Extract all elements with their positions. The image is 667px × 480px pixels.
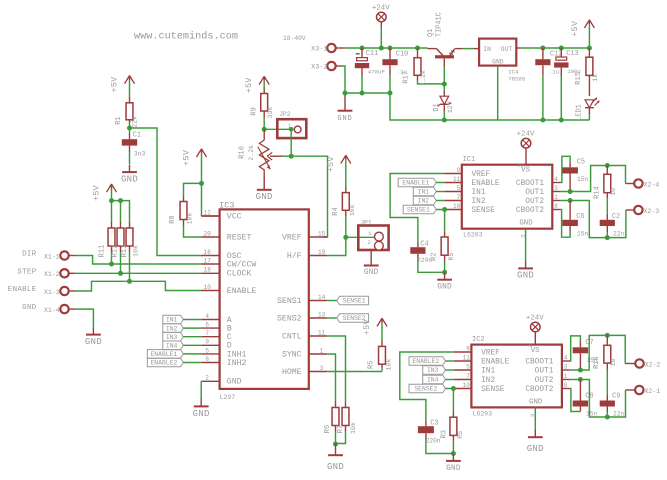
svg-text:X2-4: X2-4 bbox=[644, 181, 660, 188]
resistor R9 39k bbox=[250, 89, 274, 130]
ground R10 bbox=[256, 173, 273, 202]
svg-text:GND: GND bbox=[227, 378, 242, 387]
connector X1-2 bbox=[44, 269, 69, 278]
junction C7-OUT1 IC2 bbox=[578, 368, 583, 373]
svg-text:78S05: 78S05 bbox=[508, 75, 526, 82]
node ENABLE2 flag bbox=[147, 358, 201, 367]
svg-text:18: 18 bbox=[204, 267, 212, 274]
svg-text:CBOOT2: CBOOT2 bbox=[516, 207, 544, 215]
capacitor C9 22n snubber bbox=[600, 392, 625, 417]
svg-text:IN2: IN2 bbox=[166, 325, 178, 332]
wire DIR to CW/CCW bbox=[69, 256, 202, 265]
svg-text:+24V: +24V bbox=[526, 314, 544, 322]
junction rail-C10 bbox=[388, 46, 393, 51]
supply +5V above R4 bbox=[326, 155, 351, 187]
svg-text:20: 20 bbox=[204, 230, 212, 237]
wire OUT2 IC2 to X2-1 bbox=[570, 380, 634, 418]
label DIR bbox=[22, 251, 37, 259]
resistor R6 10k bbox=[324, 402, 339, 445]
junction C4-R2 ground bbox=[442, 270, 447, 275]
svg-text:X1-4: X1-4 bbox=[44, 307, 60, 314]
svg-text:X2-1: X2-1 bbox=[645, 388, 661, 395]
svg-text:SENS1: SENS1 bbox=[277, 297, 302, 306]
svg-text:+5V: +5V bbox=[362, 319, 372, 335]
wire ground bus upper bbox=[345, 92, 390, 94]
node SENSE2 flag bbox=[327, 314, 368, 323]
capacitor C11 470uF bbox=[355, 48, 386, 93]
svg-text:R4: R4 bbox=[332, 207, 340, 215]
svg-text:GND: GND bbox=[527, 444, 544, 454]
svg-text:CBOOT1: CBOOT1 bbox=[525, 358, 553, 366]
junction wiper-JP2 bbox=[289, 154, 294, 159]
supply +24V IC1 bbox=[517, 131, 535, 168]
IC2 pin 3 OUT1 bbox=[535, 364, 571, 376]
node SENSE2 flag IC2 bbox=[409, 384, 454, 393]
svg-text:HOME: HOME bbox=[282, 368, 302, 377]
jumper JP2 bbox=[277, 111, 306, 138]
svg-text:11: 11 bbox=[453, 176, 461, 183]
IC3 pin 10 ENABLE bbox=[201, 284, 256, 296]
node IN1 flag IC1 bbox=[413, 187, 444, 196]
svg-text:.1u: .1u bbox=[549, 68, 559, 75]
svg-text:STEP: STEP bbox=[17, 268, 36, 276]
svg-text:CBOOT1: CBOOT1 bbox=[516, 180, 544, 188]
svg-text:IN1: IN1 bbox=[166, 317, 178, 324]
ground power input bbox=[337, 95, 352, 123]
IC3 pin 5 INH1 bbox=[201, 347, 246, 359]
junction gnd-X3-2 bbox=[343, 91, 348, 96]
resistor R1 22k bbox=[115, 97, 139, 128]
svg-text:GND: GND bbox=[22, 304, 37, 312]
wire HOME to R5 bbox=[327, 371, 382, 373]
IC3 pin 4 A bbox=[201, 313, 232, 325]
label 18-40V bbox=[283, 35, 306, 42]
svg-text:R5: R5 bbox=[448, 253, 455, 261]
junction R9-R10-JP2 bbox=[262, 127, 267, 132]
svg-text:GND: GND bbox=[121, 175, 138, 185]
IC2 pin 8 CBOOT2 bbox=[525, 382, 570, 394]
svg-text:X1-1: X1-1 bbox=[44, 253, 60, 260]
svg-text:R10: R10 bbox=[238, 146, 246, 159]
svg-text:8: 8 bbox=[554, 203, 558, 210]
connector X3-1 bbox=[311, 44, 336, 54]
IC3 pin 11 CNTL bbox=[282, 329, 327, 341]
IC1 pin 7 IN2 bbox=[444, 194, 486, 206]
IC3 pin 16 OSC bbox=[201, 249, 241, 261]
wire IC4 GND pin to ground rail bbox=[497, 66, 499, 120]
svg-text:GND: GND bbox=[327, 462, 344, 472]
IC3 pin 13 SENS2 bbox=[277, 311, 327, 323]
svg-text:1: 1 bbox=[554, 194, 558, 201]
svg-text:C5: C5 bbox=[577, 158, 585, 166]
svg-text:OUT1: OUT1 bbox=[525, 189, 544, 197]
wire +24V rail bbox=[362, 47, 428, 49]
svg-text:6: 6 bbox=[205, 322, 209, 329]
svg-text:1k: 1k bbox=[592, 74, 599, 82]
wire osc node to OSC pin bbox=[130, 128, 202, 256]
svg-text:CNTL: CNTL bbox=[282, 332, 302, 341]
connector X2-3 bbox=[634, 206, 659, 215]
svg-text:L6203: L6203 bbox=[473, 410, 493, 417]
svg-text:10k: 10k bbox=[187, 212, 194, 224]
svg-text:RESET: RESET bbox=[227, 233, 252, 242]
svg-text:CBOOT2: CBOOT2 bbox=[525, 386, 553, 394]
connector X1-3 bbox=[44, 287, 69, 296]
junction R12-STEP bbox=[118, 271, 123, 276]
svg-text:1: 1 bbox=[564, 373, 568, 380]
junction C13 ground rail bbox=[559, 118, 564, 123]
wire OUT1 IC2 to X2-2 bbox=[570, 335, 635, 370]
svg-text:ENABLE2: ENABLE2 bbox=[150, 360, 177, 367]
svg-text:VREF: VREF bbox=[282, 233, 302, 242]
svg-text:17: 17 bbox=[204, 257, 212, 264]
wire X3-1 to +24V rail bbox=[336, 47, 362, 49]
svg-text:R5: R5 bbox=[457, 431, 464, 439]
svg-text:www.cuteminds.com: www.cuteminds.com bbox=[134, 31, 238, 43]
svg-text:C8: C8 bbox=[585, 392, 593, 400]
junction OUT1-R16 bbox=[605, 333, 610, 338]
resistor R17 1.2k bbox=[402, 48, 441, 86]
junction VCC-R8 bbox=[199, 181, 204, 186]
svg-text:11: 11 bbox=[318, 329, 326, 336]
svg-text:JP2: JP2 bbox=[279, 111, 291, 118]
svg-text:TIP41C: TIP41C bbox=[435, 12, 443, 37]
svg-text:1.2k: 1.2k bbox=[420, 70, 427, 86]
supply +24V IC2 bbox=[526, 314, 544, 347]
svg-text:11: 11 bbox=[463, 355, 471, 362]
svg-text:7: 7 bbox=[205, 330, 209, 337]
svg-text:2: 2 bbox=[527, 343, 534, 347]
svg-text:OUT2: OUT2 bbox=[535, 377, 554, 385]
svg-text:4: 4 bbox=[564, 355, 568, 362]
supply +24V top bbox=[372, 4, 390, 48]
svg-text:14: 14 bbox=[318, 294, 326, 301]
svg-text:IN1: IN1 bbox=[472, 189, 486, 197]
junction +5V rail C13 bbox=[559, 46, 564, 51]
svg-text:13: 13 bbox=[318, 311, 326, 318]
capacitor C12 .1u bbox=[535, 48, 562, 120]
wire ground rail lower bbox=[390, 93, 589, 120]
svg-text:10: 10 bbox=[204, 284, 212, 291]
junction gnd-C11 bbox=[360, 91, 365, 96]
svg-text:15n: 15n bbox=[577, 176, 588, 183]
junction OUT2-C9 bottom bbox=[605, 415, 610, 420]
svg-text:9: 9 bbox=[205, 339, 209, 346]
IC3 pin 8 INH2 bbox=[201, 356, 246, 368]
svg-text:7: 7 bbox=[466, 373, 470, 380]
svg-text:SYNC: SYNC bbox=[282, 350, 302, 359]
ground C3 R3 bbox=[446, 454, 461, 473]
svg-text:10: 10 bbox=[610, 188, 617, 196]
svg-text:3: 3 bbox=[564, 364, 568, 371]
resistor R3 sense bbox=[440, 389, 463, 454]
label STEP bbox=[17, 268, 36, 276]
svg-text:12: 12 bbox=[204, 209, 212, 216]
supply +5V above R9 bbox=[244, 76, 269, 93]
svg-text:R16: R16 bbox=[593, 356, 601, 369]
ground IC1 bbox=[517, 229, 534, 281]
svg-text:Q1: Q1 bbox=[427, 29, 435, 37]
svg-text:15n: 15n bbox=[586, 411, 597, 418]
svg-text:SENSE1: SENSE1 bbox=[407, 207, 430, 214]
svg-text:IN2: IN2 bbox=[472, 198, 486, 206]
IC1 pin 3 OUT1 bbox=[525, 185, 560, 197]
svg-text:10k: 10k bbox=[385, 359, 392, 371]
resistor R14 10 snubber bbox=[593, 166, 617, 214]
IC3 pin 18 CLOCK bbox=[201, 267, 251, 279]
node IN1 flag bbox=[163, 315, 201, 324]
IC1 pin 4 CBOOT1 bbox=[516, 176, 561, 188]
svg-text:SENSE: SENSE bbox=[481, 386, 505, 394]
wire CNTL to R7 bbox=[327, 336, 345, 402]
svg-text:2: 2 bbox=[367, 239, 371, 246]
svg-text:22n: 22n bbox=[613, 230, 624, 237]
junction IC2 SENSE-R3 bbox=[451, 386, 456, 391]
svg-text:LED1: LED1 bbox=[575, 104, 583, 121]
svg-text:5: 5 bbox=[205, 347, 209, 354]
wire X1-4 to ground bbox=[69, 309, 94, 328]
svg-text:2: 2 bbox=[205, 375, 209, 382]
capacitor C2 22n snubber bbox=[600, 213, 625, 238]
svg-text:39k: 39k bbox=[267, 106, 274, 118]
resistor R4 10k bbox=[332, 187, 356, 237]
svg-text:IC4: IC4 bbox=[508, 68, 519, 75]
IC1 pin 8 CBOOT2 bbox=[516, 203, 561, 215]
capacitor C4 220n bbox=[410, 241, 444, 273]
svg-text:8: 8 bbox=[564, 382, 568, 389]
svg-text:L297: L297 bbox=[220, 394, 236, 401]
svg-text:ENABLE: ENABLE bbox=[8, 286, 37, 294]
potentiometer R10 2.2k bbox=[238, 129, 282, 173]
junction R1-C1 osc node bbox=[127, 126, 132, 131]
junction rail-X3-1 bbox=[360, 46, 365, 51]
connector X2-1 bbox=[635, 386, 660, 395]
svg-text:L6203: L6203 bbox=[463, 231, 483, 238]
svg-text:R14: R14 bbox=[593, 186, 601, 199]
op-amp IC4 78S05 regulator bbox=[479, 39, 526, 83]
wire IC2 VREF loop to C3 bbox=[400, 352, 454, 420]
svg-text:CW/CCW: CW/CCW bbox=[227, 259, 257, 269]
svg-text:3: 3 bbox=[554, 185, 558, 192]
junction D1 ground rail bbox=[442, 118, 447, 123]
node IN4 flag bbox=[163, 341, 201, 350]
svg-text:18-40V: 18-40V bbox=[283, 35, 306, 42]
IC3 pin 20 RESET bbox=[201, 230, 251, 242]
junction R6-R7 bbox=[333, 442, 338, 447]
title text www.cuteminds.com bbox=[134, 31, 238, 43]
wire CBOOT2 to C6 bottom bbox=[561, 210, 571, 238]
svg-text:+5V: +5V bbox=[244, 77, 254, 93]
svg-text:GND: GND bbox=[517, 271, 534, 281]
svg-text:IN4: IN4 bbox=[166, 343, 178, 350]
op-amp IC3 L297 controller bbox=[219, 201, 309, 402]
svg-text:9: 9 bbox=[457, 167, 461, 174]
wire +5V pullup bus bbox=[112, 201, 130, 222]
resistor R16 10 snubber bbox=[593, 335, 617, 394]
IC3 pin 6 B bbox=[201, 322, 232, 334]
svg-text:X1-2: X1-2 bbox=[44, 271, 60, 278]
svg-text:H/F: H/F bbox=[287, 251, 302, 261]
svg-text:C13: C13 bbox=[566, 50, 578, 58]
svg-text:VCC: VCC bbox=[227, 212, 242, 221]
svg-text:IC2: IC2 bbox=[472, 336, 485, 344]
wire OUT1 to X2-4 bbox=[561, 166, 634, 192]
IC3 pin 1 SYNC bbox=[282, 347, 327, 359]
svg-text:R6: R6 bbox=[324, 425, 332, 433]
svg-text:ENABLE: ENABLE bbox=[481, 358, 509, 366]
svg-text:X1-3: X1-3 bbox=[44, 289, 60, 296]
wire to JP1 pin 1 bbox=[346, 236, 375, 238]
svg-text:X2-2: X2-2 bbox=[645, 361, 661, 368]
svg-text:GND: GND bbox=[519, 220, 533, 228]
connector X1-1 bbox=[44, 251, 69, 260]
IC3 pin 9 D bbox=[201, 339, 232, 351]
svg-text:15n: 15n bbox=[577, 230, 588, 237]
IC1 pin 9 VREF bbox=[444, 167, 490, 179]
svg-text:10: 10 bbox=[463, 382, 471, 389]
svg-text:R5: R5 bbox=[368, 361, 376, 369]
svg-text:9: 9 bbox=[466, 346, 470, 353]
svg-text:D1: D1 bbox=[433, 103, 441, 111]
svg-text:4: 4 bbox=[554, 176, 558, 183]
wire VREF net to IC3 pin 15 bbox=[291, 156, 327, 237]
svg-text:R2: R2 bbox=[431, 253, 439, 261]
svg-text:CLOCK: CLOCK bbox=[227, 270, 252, 279]
wire STEP to CLOCK bbox=[69, 272, 202, 274]
wire R17 to Q1 base bbox=[441, 83, 444, 85]
IC3 pin 19 H/F bbox=[287, 249, 327, 261]
junction R13-ENABLE bbox=[127, 279, 132, 284]
svg-text:GND: GND bbox=[85, 337, 102, 347]
IC2 pin 10 SENSE bbox=[454, 382, 505, 394]
capacitor C6 15n bootstrap bbox=[562, 201, 588, 238]
ground C4 R2 bbox=[437, 272, 452, 291]
svg-text:IC3: IC3 bbox=[219, 201, 234, 211]
svg-text:2.2k: 2.2k bbox=[248, 145, 255, 161]
svg-text:7: 7 bbox=[457, 194, 461, 201]
capacitor C7 15n bootstrap bbox=[570, 336, 597, 370]
svg-text:C11: C11 bbox=[366, 50, 378, 58]
svg-text:3: 3 bbox=[320, 365, 324, 372]
supply +5V right bbox=[570, 20, 594, 48]
svg-text:OUT: OUT bbox=[501, 46, 513, 53]
wire OUT2 to X2-3 bbox=[561, 201, 634, 238]
junction rail-R17 bbox=[415, 46, 420, 51]
resistor R8 10k bbox=[169, 183, 201, 237]
svg-text:DIR: DIR bbox=[22, 251, 37, 259]
wire JP2 to wiper node bbox=[290, 129, 292, 156]
node IN3 flag bbox=[163, 332, 201, 341]
capacitor C8 15n bootstrap bbox=[573, 380, 598, 418]
IC2 pin 11 ENABLE bbox=[454, 355, 510, 367]
svg-text:C1: C1 bbox=[133, 131, 141, 139]
IC2 pin 7 IN2 bbox=[454, 373, 496, 385]
IC3 pin 7 C bbox=[201, 330, 232, 342]
svg-text:C2: C2 bbox=[612, 213, 620, 221]
svg-text:10: 10 bbox=[453, 203, 461, 210]
svg-text:X2-3: X2-3 bbox=[644, 208, 660, 215]
junction +5V rail C12 bbox=[540, 46, 545, 51]
IC2 pin 5 IN1 bbox=[454, 364, 496, 376]
svg-text:IN1: IN1 bbox=[418, 189, 430, 196]
IC3 pin 2 GND bbox=[201, 375, 241, 387]
svg-text:+5V: +5V bbox=[182, 150, 192, 166]
IC1 pin 1 OUT2 bbox=[525, 194, 560, 206]
svg-text:IN1: IN1 bbox=[481, 367, 495, 375]
IC2 pin 9 VREF bbox=[454, 346, 500, 358]
svg-text:4: 4 bbox=[205, 313, 209, 320]
svg-text:X3-1: X3-1 bbox=[311, 46, 327, 54]
ground R6 R7 bbox=[327, 444, 344, 472]
svg-text:IN: IN bbox=[483, 46, 491, 53]
svg-text:IN2: IN2 bbox=[418, 198, 430, 205]
IC2 pin 1 OUT2 bbox=[535, 373, 571, 385]
capacitor C3 220n bbox=[418, 419, 454, 453]
svg-text:R8: R8 bbox=[169, 215, 177, 223]
resistor R11 10k bbox=[98, 201, 115, 264]
op-amp IC2 L6203 driver bbox=[471, 336, 562, 417]
wire SYNC to R6 bbox=[327, 354, 335, 402]
jumper JP1 bbox=[358, 219, 388, 258]
connector X3-2 bbox=[311, 62, 336, 72]
svg-text:GND: GND bbox=[437, 284, 452, 292]
svg-text:2: 2 bbox=[518, 163, 525, 167]
svg-text:ENABLE2: ENABLE2 bbox=[412, 358, 439, 365]
ground JP1 bbox=[364, 258, 379, 277]
label GND input bbox=[22, 304, 37, 312]
IC3 pin 12 VCC bbox=[201, 209, 241, 221]
svg-text:GND: GND bbox=[492, 58, 504, 65]
svg-text:IN3: IN3 bbox=[427, 367, 439, 374]
svg-text:GND: GND bbox=[256, 192, 273, 202]
junction OUT2-C6 top bbox=[568, 198, 573, 203]
node IN2 flag IC1 bbox=[413, 196, 444, 205]
junction R11-DIR bbox=[109, 262, 114, 267]
label ENABLE bbox=[8, 286, 37, 294]
svg-text:GND: GND bbox=[529, 398, 543, 406]
IC3 pin 3 HOME bbox=[282, 365, 327, 377]
svg-text:SENSE2: SENSE2 bbox=[414, 386, 437, 393]
junction IC1 SENSE-R2 bbox=[442, 207, 447, 212]
svg-text:OUT2: OUT2 bbox=[525, 198, 544, 206]
svg-text:R15: R15 bbox=[575, 72, 583, 85]
svg-text:1: 1 bbox=[320, 347, 324, 354]
junction +5V rail R15 bbox=[587, 46, 592, 51]
svg-text:+5V: +5V bbox=[92, 185, 102, 201]
junction R4-HF-JP1 bbox=[343, 235, 348, 240]
svg-text:R9: R9 bbox=[250, 107, 258, 115]
svg-text:IN3: IN3 bbox=[166, 334, 178, 341]
supply +5V above R11-R13 bbox=[92, 184, 117, 201]
svg-text:SENS2: SENS2 bbox=[277, 314, 302, 323]
supply +5V above R1 bbox=[110, 76, 135, 98]
node SENSE1 flag IC1 bbox=[403, 205, 444, 214]
supply +5V above R5 bbox=[362, 318, 387, 340]
svg-text:8: 8 bbox=[205, 356, 209, 363]
node SENSE1 flag bbox=[327, 296, 368, 305]
wire junction to JP2 bbox=[264, 128, 291, 130]
resistor R2 sense bbox=[431, 210, 456, 273]
svg-text:GND: GND bbox=[337, 115, 352, 123]
svg-text:IN2: IN2 bbox=[481, 377, 495, 385]
svg-text:1: 1 bbox=[368, 230, 372, 237]
capacitor C1 3n3 bbox=[122, 128, 146, 165]
svg-text:+24V: +24V bbox=[372, 4, 390, 12]
IC3 pin 15 VREF bbox=[282, 230, 327, 242]
junction JP2 pin bbox=[289, 127, 294, 132]
svg-text:5: 5 bbox=[457, 185, 461, 192]
wire ENABLE to pin 10 bbox=[69, 281, 202, 291]
